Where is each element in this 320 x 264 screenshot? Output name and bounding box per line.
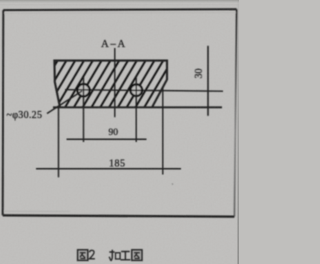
hatching of section (29, 60, 172, 109)
dimension line 90 (67, 138, 147, 140)
part outline (section A-A) (54, 61, 167, 108)
paper grain (0, 0, 239, 264)
frame right border (fading) (234, 9, 236, 216)
hole centre line (horizontal, extended right) (65, 90, 223, 92)
section centre line under A-A label (114, 48, 116, 117)
extension line left of 185 dim (58, 106, 60, 178)
right hole vertical centre line / 90-dim extension (135, 78, 137, 143)
leader line to phi30.25 label (47, 91, 82, 114)
scan right edge shade (237, 0, 239, 264)
glyph 2 (figure number) (89, 250, 95, 259)
scan top edge streaks (0, 0, 239, 1)
faint scan artifact line above bottom border (4, 210, 70, 212)
glyph 加 (109, 250, 120, 261)
right hole phi30.25 (131, 84, 143, 96)
faint scan streak below top border (4, 12, 236, 15)
left hole vertical centre line / 90-dim extension (83, 77, 85, 142)
left hole phi30.25 (77, 84, 89, 96)
extension line right of 185 dim (162, 87, 164, 174)
glyph 图 (1st) (78, 250, 88, 261)
frame bottom border (3, 215, 235, 216)
caption: hand-drawn 图2 加工图 (78, 250, 142, 261)
paper background (0, 0, 239, 264)
glyph 工 (121, 252, 131, 260)
frame top border (3, 8, 236, 11)
bottom edge line extended right (53, 106, 222, 108)
vertical dimension line 30 (right side) (207, 46, 209, 116)
ink speck (172, 183, 174, 185)
glyph 图 (2nd) (132, 250, 142, 261)
frame left border (2, 10, 5, 215)
dimension line 185 (36, 168, 181, 170)
hole interiors cleared (77, 84, 89, 96)
